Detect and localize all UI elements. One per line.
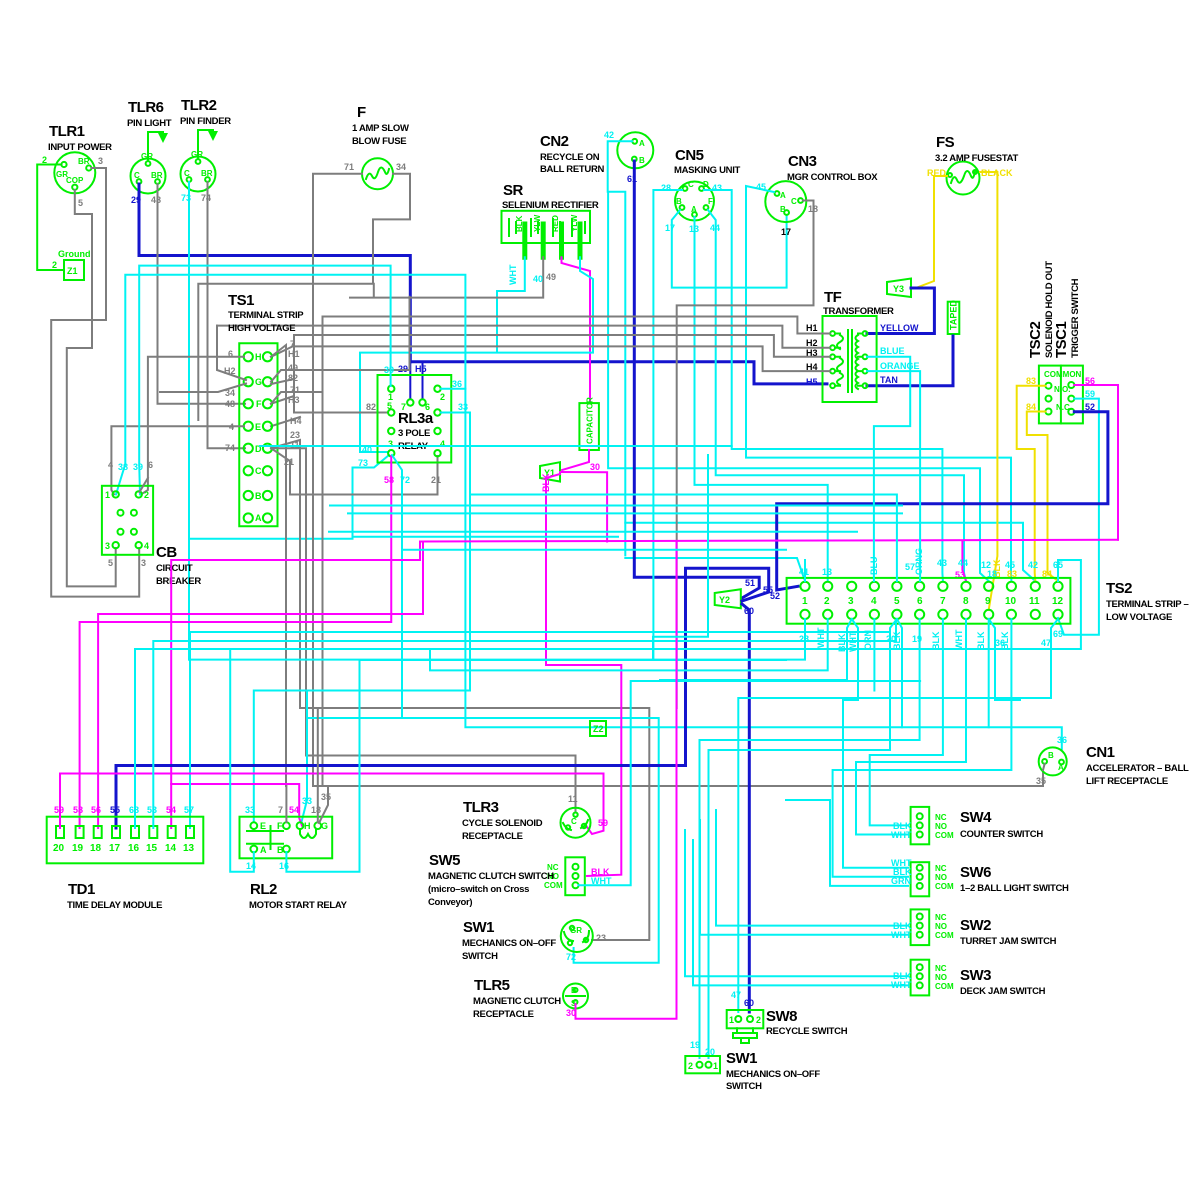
svg-text:N.C.: N.C. — [1056, 403, 1072, 412]
switch SW5 MAGNETIC CLUTCH — [565, 857, 585, 895]
svg-text:NO: NO — [935, 922, 947, 931]
svg-text:C: C — [184, 169, 190, 178]
svg-text:NC: NC — [935, 964, 947, 973]
svg-text:COMMON: COMMON — [1044, 370, 1082, 379]
svg-text:35: 35 — [1036, 776, 1046, 786]
wire gray TLR1 COP(5) to CB.3 — [67, 190, 116, 586]
svg-text:17: 17 — [109, 843, 121, 854]
svg-text:BLK: BLK — [541, 473, 551, 492]
svg-text:1 AMP SLOW: 1 AMP SLOW — [352, 123, 409, 134]
wire gray 49 TS1.G right — [271, 297, 410, 382]
svg-text:28: 28 — [661, 183, 671, 193]
svg-text:ORANGE: ORANGE — [880, 361, 920, 371]
svg-text:GR: GR — [570, 926, 582, 935]
svg-text:TAN: TAN — [880, 375, 898, 385]
svg-text:H4: H4 — [290, 416, 302, 426]
svg-text:F: F — [256, 399, 262, 409]
wire cyan 42 to TS2.11 — [625, 523, 1035, 581]
svg-text:E: E — [260, 821, 266, 831]
svg-text:39: 39 — [133, 462, 143, 472]
svg-text:MGR CONTROL BOX: MGR CONTROL BOX — [787, 172, 878, 183]
symbol Y2 connector — [715, 589, 741, 608]
svg-text:TD1: TD1 — [68, 881, 95, 898]
svg-text:COUNTER SWITCH: COUNTER SWITCH — [960, 829, 1043, 840]
wire gray 71 TS1.F right — [271, 392, 323, 404]
svg-text:7: 7 — [290, 339, 295, 349]
svg-text:H: H — [255, 352, 262, 362]
switch SW2 TURRET JAM — [911, 909, 930, 945]
svg-text:TURRET JAM SWITCH: TURRET JAM SWITCH — [960, 936, 1057, 947]
svg-text:5: 5 — [108, 558, 113, 568]
svg-text:7: 7 — [940, 596, 946, 607]
wire cyan bundle filler B — [348, 512, 902, 514]
wire cyan 13 CN5.A to TS2.2 — [695, 217, 828, 581]
svg-text:N.O.: N.O. — [1054, 385, 1070, 394]
svg-text:2: 2 — [144, 490, 149, 500]
wire gray 6 diagonal into CB.2 — [140, 478, 148, 492]
svg-text:E: E — [255, 422, 261, 432]
switch SW8 RECYCLE — [727, 1010, 764, 1043]
wire cyan ORANGE TF to TS2.6 — [867, 371, 920, 581]
svg-text:40: 40 — [533, 274, 543, 284]
wire cyan 16 RL2.B loop — [286, 660, 786, 872]
svg-text:RECEPTACLE: RECEPTACLE — [462, 831, 523, 842]
svg-text:TIME DELAY MODULE: TIME DELAY MODULE — [67, 900, 162, 911]
wire cyan BLK TS2.10 to SW6.NO — [833, 619, 1012, 877]
svg-text:SW6: SW6 — [960, 864, 991, 881]
svg-text:3: 3 — [141, 558, 146, 568]
svg-text:TLR2: TLR2 — [181, 97, 217, 114]
svg-text:2: 2 — [824, 596, 830, 607]
svg-text:38: 38 — [118, 462, 128, 472]
wire blue 29 TLR6.C bus to RL3a/TF H5 — [139, 184, 410, 362]
svg-text:6: 6 — [148, 460, 153, 470]
svg-text:1: 1 — [802, 596, 808, 607]
wire cyan 39 CB.2 to RL3a.1 — [139, 266, 390, 495]
wire cyan 12 CN2 area to TS2.9 — [608, 193, 989, 581]
svg-text:B: B — [676, 197, 682, 206]
wire yellow FS.BLACK to TS2.9 — [980, 172, 997, 610]
svg-text:16: 16 — [279, 861, 289, 871]
wire cyan 69 TSC1 to TS2.12 — [1058, 399, 1099, 635]
switch SW6 1-2 BALL LIGHT — [911, 862, 930, 896]
svg-text:4: 4 — [144, 541, 149, 551]
symbol Y1 connector — [540, 462, 560, 481]
svg-text:4: 4 — [871, 596, 877, 607]
svg-text:TRIGGER SWITCH: TRIGGER SWITCH — [1070, 278, 1081, 358]
svg-text:TSC2: TSC2 — [1027, 322, 1044, 359]
svg-text:YELLOW: YELLOW — [880, 323, 919, 333]
wire cyan 14 RL2.A loop — [230, 649, 254, 872]
wire cyan 47 TS2.12 to SW8 — [738, 619, 1058, 1012]
wire magenta 59 TLR3 to TD1.20 — [60, 774, 604, 835]
wire cyan 53 TD1.15 bus — [153, 620, 896, 828]
svg-text:5: 5 — [78, 198, 83, 208]
svg-text:3: 3 — [388, 439, 393, 449]
wire cyan 41 TS2.1 up — [804, 560, 806, 581]
time delay module TD1 — [47, 817, 204, 864]
wire gray 71/34 fuse loop — [198, 174, 410, 420]
relay RL3a 3 POLE — [378, 375, 452, 463]
wire gray 18 RL2.G up — [317, 708, 319, 822]
svg-text:7: 7 — [401, 402, 406, 412]
svg-text:14: 14 — [165, 843, 177, 854]
wire blue TAN to TAPED — [867, 336, 953, 386]
svg-text:NO: NO — [935, 822, 947, 831]
wire gray TLR1 pin3 to CB.4 — [51, 168, 139, 597]
svg-text:LIFT RECEPTACLE: LIFT RECEPTACLE — [1086, 776, 1168, 787]
svg-text:H1: H1 — [288, 349, 300, 359]
svg-text:NC: NC — [935, 813, 947, 822]
arrow TLR6 hook — [158, 133, 168, 143]
svg-text:BR: BR — [151, 171, 163, 180]
relay RL2 MOTOR START — [240, 817, 333, 859]
svg-text:4: 4 — [108, 460, 113, 470]
wire cyan WHT SW5.COM up — [579, 681, 921, 885]
svg-text:TERMINAL STRIP –: TERMINAL STRIP – — [1106, 599, 1188, 610]
svg-text:56: 56 — [1085, 376, 1095, 386]
switch TSC2 SOLENOID HOLD OUT / TSC1 TRIGGER SWITCH — [1039, 366, 1083, 424]
wire magenta bus 56 — [171, 540, 1118, 828]
svg-text:F: F — [277, 821, 283, 831]
wire cyan bundle filler F — [330, 505, 902, 507]
svg-text:RECEPTACLE: RECEPTACLE — [473, 1009, 534, 1020]
wire gray 35 diagonal RL2.G — [319, 786, 328, 823]
svg-text:A: A — [780, 191, 786, 200]
svg-text:58: 58 — [384, 475, 394, 485]
switch SW3 DECK JAM — [911, 960, 930, 996]
svg-text:74: 74 — [225, 443, 235, 453]
svg-text:43: 43 — [937, 558, 947, 568]
svg-text:NO: NO — [935, 873, 947, 882]
wire gray H4 stub TS1.E right — [271, 417, 300, 426]
wire cyan 43 CN5.D staircase to TS2.7 — [704, 190, 943, 581]
svg-text:Conveyor): Conveyor) — [428, 897, 472, 908]
wire cyan 40 from SR.YLW2 to RL3a.3 — [360, 257, 593, 452]
svg-text:C: C — [791, 197, 797, 206]
svg-text:44: 44 — [958, 558, 968, 568]
svg-text:COM: COM — [935, 831, 954, 840]
svg-text:(micro–switch on Cross: (micro–switch on Cross — [428, 884, 529, 895]
svg-text:WHT: WHT — [954, 629, 964, 650]
svg-text:SW8: SW8 — [766, 1008, 797, 1025]
svg-text:12: 12 — [1052, 596, 1064, 607]
svg-text:SR: SR — [503, 182, 524, 199]
wire gray 35 CN1.B stub — [1043, 764, 1045, 770]
wire cyan ORN TS2.4 bottom — [873, 619, 875, 691]
svg-text:54: 54 — [289, 805, 299, 815]
wire cyan BLK TS2.5 bottom — [897, 619, 902, 727]
svg-text:TLR3: TLR3 — [463, 799, 499, 816]
svg-text:COP: COP — [66, 176, 84, 185]
wire cyan 57 net to TS2.5 — [470, 495, 897, 582]
wire gray bus H1-H4 from TS1 to TF — [323, 317, 831, 787]
svg-text:74: 74 — [201, 193, 211, 203]
svg-text:RECYCLE ON: RECYCLE ON — [540, 152, 600, 163]
wire gray 6 TS1.H to CB.2 — [141, 357, 244, 495]
svg-text:C: C — [688, 180, 694, 189]
wire cyan 42 CN2.A staircase to TS2.11 — [608, 141, 632, 555]
svg-text:H: H — [304, 821, 311, 831]
wire cyan 20 TS2.5 to SW1b — [709, 619, 897, 1058]
connector TLR6 PIN LIGHT — [131, 132, 166, 194]
svg-text:72: 72 — [566, 952, 576, 962]
svg-text:3: 3 — [105, 541, 110, 551]
svg-text:MECHANICS ON–OFF: MECHANICS ON–OFF — [462, 938, 556, 949]
svg-text:WHT: WHT — [816, 627, 826, 648]
wire magenta 30 Y1 to bus — [560, 472, 607, 542]
svg-text:NC: NC — [935, 864, 947, 873]
svg-text:H5: H5 — [806, 377, 818, 387]
wire yellow 84 TSC2 to TS2.12 — [1027, 412, 1058, 582]
svg-text:G: G — [255, 377, 262, 387]
wire gray 74 TLR2.BR to TS1.D — [208, 182, 246, 448]
svg-text:19: 19 — [72, 843, 84, 854]
svg-text:CN3: CN3 — [788, 153, 817, 170]
svg-text:7: 7 — [278, 805, 283, 815]
svg-text:18: 18 — [311, 805, 321, 815]
wire gray 82 TS1.G to RL3a.5 — [271, 379, 388, 413]
svg-text:C: C — [134, 171, 140, 180]
svg-text:23: 23 — [290, 430, 300, 440]
svg-text:BREAKER: BREAKER — [156, 576, 201, 587]
wire cyan bundle filler E — [353, 536, 619, 538]
svg-text:F: F — [357, 104, 366, 121]
svg-text:58: 58 — [73, 805, 83, 815]
svg-text:TAPED: TAPED — [949, 300, 959, 330]
svg-text:20: 20 — [705, 1047, 715, 1057]
svg-text:SW3: SW3 — [960, 967, 991, 984]
svg-text:82: 82 — [366, 402, 376, 412]
svg-text:53: 53 — [147, 805, 157, 815]
svg-text:42: 42 — [1028, 560, 1038, 570]
wire cyan 45 CN3.A staircase to TS2.10 — [746, 186, 1011, 581]
svg-text:A: A — [1058, 763, 1064, 772]
wire cyan 38 CB.1 bus right — [116, 275, 465, 495]
svg-text:B: B — [277, 845, 284, 855]
svg-text:BR: BR — [78, 157, 90, 166]
breaker CB CIRCUIT BREAKER — [102, 486, 153, 555]
svg-text:1: 1 — [729, 1015, 734, 1025]
svg-text:A: A — [255, 513, 262, 523]
svg-text:34: 34 — [396, 162, 406, 172]
svg-text:36: 36 — [1057, 735, 1067, 745]
svg-text:3: 3 — [98, 156, 103, 166]
svg-text:BLUE: BLUE — [880, 346, 905, 356]
svg-text:17: 17 — [665, 223, 675, 233]
svg-text:YLW: YLW — [570, 214, 579, 232]
wire yellow FS.RED to Y3 — [916, 176, 947, 288]
svg-text:C: C — [255, 466, 262, 476]
connector CN5 MASKING UNIT — [675, 182, 714, 221]
svg-text:61: 61 — [627, 174, 637, 184]
svg-text:42: 42 — [604, 130, 614, 140]
svg-text:33: 33 — [245, 805, 255, 815]
svg-text:TLR5: TLR5 — [474, 977, 510, 994]
wire blue 60 Y2 to SW8 — [742, 604, 749, 1012]
svg-text:Y2: Y2 — [719, 595, 730, 605]
svg-text:BLK: BLK — [515, 215, 524, 232]
wire cyan junction near Y2 — [653, 455, 708, 660]
svg-text:1: 1 — [105, 490, 110, 500]
svg-text:19: 19 — [690, 1040, 700, 1050]
svg-text:71: 71 — [290, 385, 300, 395]
svg-text:21: 21 — [431, 475, 441, 485]
wire magenta 53 branch to TS2.8 — [962, 541, 966, 582]
wire blue 55 Y2 to TD1.17 — [116, 568, 769, 828]
svg-text:MECHANICS ON–OFF: MECHANICS ON–OFF — [726, 1069, 820, 1080]
svg-text:GRN: GRN — [891, 876, 911, 886]
svg-text:PIN FINDER: PIN FINDER — [180, 116, 231, 127]
svg-text:72: 72 — [400, 475, 410, 485]
svg-text:INPUT POWER: INPUT POWER — [48, 142, 112, 153]
svg-text:TLR1: TLR1 — [49, 123, 85, 140]
svg-text:Z1: Z1 — [67, 266, 78, 276]
svg-text:48: 48 — [151, 195, 161, 205]
svg-text:Z2: Z2 — [593, 724, 604, 734]
svg-text:TS2: TS2 — [1106, 580, 1132, 597]
svg-text:5: 5 — [387, 401, 392, 411]
svg-text:MAGNETIC CLUTCH SWITCH: MAGNETIC CLUTCH SWITCH — [428, 871, 554, 882]
svg-text:TLR6: TLR6 — [128, 99, 164, 116]
wire cyan BLK TS2.3 bottom — [660, 619, 852, 680]
svg-text:10: 10 — [1005, 596, 1017, 607]
svg-text:SW5: SW5 — [429, 852, 460, 869]
svg-text:CN2: CN2 — [540, 133, 569, 150]
svg-text:2: 2 — [688, 1061, 693, 1071]
receptacle TLR5 MAGNETIC CLUTCH — [563, 984, 588, 1009]
connector TLR1 INPUT POWER — [54, 152, 95, 193]
svg-text:COM: COM — [544, 881, 563, 890]
svg-text:84: 84 — [1026, 402, 1036, 412]
wire cyan 28/12 CN5.C staircase to TS2.9 — [653, 190, 682, 660]
wire cyan 72 RL3a.3 to SW1 — [308, 455, 659, 963]
svg-text:23: 23 — [596, 933, 606, 943]
wire magenta 56 branch to TD1.18 — [98, 542, 423, 829]
terminal strip TS1 HIGH VOLTAGE — [239, 343, 277, 526]
svg-text:SWITCH: SWITCH — [462, 951, 498, 962]
svg-text:2: 2 — [440, 392, 445, 402]
wire cyan WHT SW3.COM left — [693, 840, 908, 985]
wire cyan WHT TS2.2 bottom — [430, 619, 828, 670]
svg-text:5: 5 — [894, 596, 900, 607]
svg-text:MAGNETIC CLUTCH: MAGNETIC CLUTCH — [473, 996, 561, 1007]
svg-text:BLK: BLK — [1000, 631, 1010, 650]
svg-text:60: 60 — [744, 998, 754, 1008]
wire cyan bundle filler C — [329, 531, 857, 533]
wire cyan BLK SW3.NO left — [685, 830, 908, 976]
svg-text:49: 49 — [288, 363, 298, 373]
wire green TLR1 pin2 to ground Z1 — [37, 165, 64, 271]
svg-text:36: 36 — [452, 379, 462, 389]
connector TLR2 PIN FINDER — [181, 130, 216, 192]
svg-text:FS: FS — [936, 134, 955, 151]
wire gray 11 TS1.D to TLR3 — [271, 448, 576, 811]
svg-text:SW1: SW1 — [463, 919, 494, 936]
wire magenta 30 TLR5 to bus — [576, 542, 677, 1019]
svg-text:RL3a: RL3a — [398, 410, 434, 427]
svg-text:52: 52 — [1085, 402, 1095, 412]
svg-text:TERMINAL STRIP: TERMINAL STRIP — [228, 310, 304, 321]
svg-text:WHT: WHT — [508, 264, 518, 285]
connector CN1 ACCELERATOR BALL LIFT — [1039, 747, 1067, 775]
svg-text:51: 51 — [745, 578, 755, 588]
svg-text:43: 43 — [712, 183, 722, 193]
wire cyan BLK36 TS2.9 to CN1 — [988, 619, 990, 727]
wire cyan 33 RL3a.6 to RL2 — [254, 413, 470, 823]
wire cyan 36 RL3a.2 to CN1.A — [441, 389, 1062, 749]
svg-text:3.2 AMP FUSESTAT: 3.2 AMP FUSESTAT — [935, 153, 1018, 164]
svg-text:NO: NO — [935, 973, 947, 982]
wire blue 61 CN2.B down to Y2 — [634, 161, 759, 598]
svg-text:NC: NC — [935, 913, 947, 922]
wire gray 18 CN3.C down — [677, 201, 814, 709]
svg-text:47: 47 — [1041, 638, 1051, 648]
svg-text:Y3: Y3 — [893, 284, 904, 294]
switch SW1 bottom MECHANICS ON-OFF — [685, 1056, 720, 1073]
svg-text:SELENIUM RECTIFIER: SELENIUM RECTIFIER — [502, 200, 599, 211]
wire cyan BLK TS2.7 to SW4 — [870, 619, 943, 825]
wire cyan 17 CN5.B to CN3.B — [672, 210, 787, 288]
svg-text:84: 84 — [1042, 569, 1052, 579]
svg-text:B: B — [780, 205, 786, 214]
svg-text:71: 71 — [344, 162, 354, 172]
svg-text:CN1: CN1 — [1086, 744, 1115, 761]
svg-text:2: 2 — [42, 155, 47, 165]
switch SW1 MECHANICS ON-OFF (receptacle) — [561, 920, 593, 952]
svg-text:30: 30 — [590, 462, 600, 472]
svg-text:GR: GR — [141, 152, 153, 161]
wire cyan BLU TF.BLUE to TS2.4 — [867, 357, 910, 581]
svg-text:WHT: WHT — [891, 830, 912, 840]
svg-text:BLK: BLK — [931, 631, 941, 650]
svg-text:33: 33 — [458, 402, 468, 412]
arrow TLR2 hook — [208, 131, 218, 141]
svg-text:17: 17 — [781, 227, 791, 237]
svg-text:YLW: YLW — [533, 214, 542, 232]
wire cyan WHT SW2.COM left — [700, 820, 908, 935]
svg-text:47: 47 — [731, 990, 741, 1000]
svg-text:49: 49 — [546, 272, 556, 282]
wire cyan BLK SW2.NO left — [716, 810, 908, 926]
svg-text:C: C — [571, 817, 577, 826]
switch SW4 COUNTER — [911, 807, 930, 844]
svg-text:59: 59 — [598, 818, 608, 828]
wire blue 52 TSC1 to TS2.1 — [777, 412, 1108, 590]
wire magenta 56 TSC1 to bus — [1074, 385, 1118, 540]
wire magenta 54 branch to RL2.H — [171, 784, 302, 826]
wire gray 21 TS1.D to RL3a.4 — [271, 448, 438, 494]
fuse F 1 AMP SLOW BLOW — [362, 158, 393, 189]
wire cyan WHT TS2.3 bottom2 — [843, 619, 908, 868]
svg-text:18: 18 — [987, 569, 997, 579]
svg-text:ACCELERATOR – BALL: ACCELERATOR – BALL — [1086, 763, 1189, 774]
svg-text:CB: CB — [156, 544, 177, 561]
wire gray 34 diagonal TS1.G — [160, 384, 246, 393]
svg-text:B: B — [571, 986, 577, 995]
svg-text:13: 13 — [183, 843, 195, 854]
svg-text:CYCLE SOLENOID: CYCLE SOLENOID — [462, 818, 543, 829]
svg-text:F: F — [708, 197, 713, 206]
wire cyan WHT TS2.8 to SW4.COM — [856, 619, 966, 835]
wire cyan GRN SW6.COM left — [786, 800, 908, 886]
svg-text:GR: GR — [191, 150, 203, 159]
svg-text:G: G — [321, 821, 328, 831]
fusestat FS 3.2 AMP — [947, 162, 980, 195]
svg-text:DECK JAM SWITCH: DECK JAM SWITCH — [960, 986, 1046, 997]
svg-text:TRANSFORMER: TRANSFORMER — [823, 306, 894, 317]
svg-text:6: 6 — [917, 596, 923, 607]
